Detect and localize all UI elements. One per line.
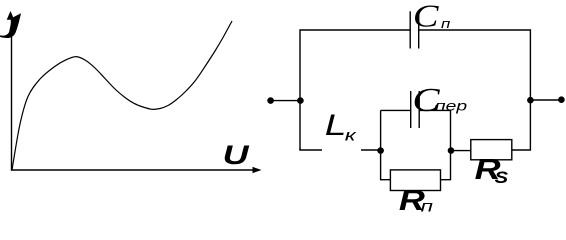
node dot A left of parallel RC (377, 147, 384, 154)
label C of Cper (412, 82, 440, 119)
wire left terminal (271, 100, 301, 102)
label S subscript of Rs (495, 168, 509, 187)
node dot right rail junction (527, 97, 534, 104)
svg-text:п: п (441, 17, 450, 32)
wire top left rail (300, 30, 410, 150)
svg-text:C: C (413, 0, 439, 34)
label R of Rp (399, 183, 425, 216)
wire node A vertical and to Rp box left (381, 110, 391, 179)
label C of Cp (413, 0, 439, 34)
label U voltage axis (223, 139, 250, 170)
label J current axis (0, 13, 21, 38)
arrowhead Y axis (7, 11, 15, 20)
label k subscript of Lk (345, 127, 358, 145)
resistor Rs box (471, 140, 512, 160)
axis Y (current axis) (11, 18, 13, 171)
wire top right rail (419, 30, 531, 150)
node dot left terminal (267, 97, 274, 104)
wire Cper top branch right, node B vertical, to Rp box right (419, 110, 450, 179)
wire Lk right stub (361, 149, 381, 151)
axis X (voltage axis) (12, 169, 255, 171)
label p subscript of Rp (421, 199, 434, 216)
label R of Rs (475, 152, 501, 185)
wire Cper top branch left (381, 109, 411, 111)
capacitor Cper plates (410, 91, 412, 128)
node dot right terminal (558, 96, 565, 103)
svg-text:U: U (223, 139, 250, 170)
svg-text:пер: пер (435, 98, 467, 114)
label per subscript of Cper (435, 98, 467, 114)
node dot left rail junction (297, 97, 304, 104)
capacitor Cp plates (409, 11, 411, 48)
label p subscript of Cp (441, 17, 450, 32)
wire right terminal (530, 99, 561, 101)
label L of Lk (325, 109, 347, 142)
curve tunnel-diode I-V characteristic (12, 21, 232, 170)
wire node B to Rs (451, 150, 471, 152)
svg-text:L: L (325, 109, 347, 142)
arrowhead X axis (253, 167, 262, 173)
resistor Rp box (390, 170, 440, 191)
svg-text:S: S (495, 168, 509, 187)
svg-text:к: к (345, 127, 358, 145)
node dot B right of parallel RC (448, 147, 455, 154)
svg-text:п: п (421, 199, 434, 216)
wire Lk left stub (300, 148, 322, 150)
